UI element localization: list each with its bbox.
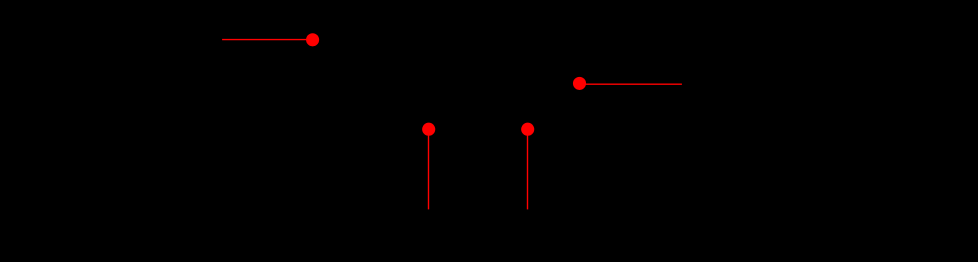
node 2: [573, 77, 586, 90]
wire (drop to output row): [559, 40, 561, 84]
resistor R1: [421, 40, 436, 130]
node 3: [422, 123, 435, 136]
node 4: [521, 123, 534, 136]
capacitor C1: [515, 40, 540, 130]
resistor R2 (load): [675, 84, 690, 209]
wire (output row): [560, 83, 682, 85]
wire (highlighted output-row segment from node 2): [580, 83, 682, 85]
wire (highlighted drop from node 4 to bottom rail): [527, 129, 529, 209]
wire (top rail): [160, 39, 560, 41]
wire (highlighted drop from node 3 to bottom rail): [428, 129, 430, 209]
voltage source V1: [142, 40, 178, 210]
ground: [458, 209, 482, 232]
wire (bottom rail): [160, 208, 682, 210]
wire (highlighted segment of top rail into node 1): [222, 39, 313, 41]
node 1: [306, 33, 319, 46]
